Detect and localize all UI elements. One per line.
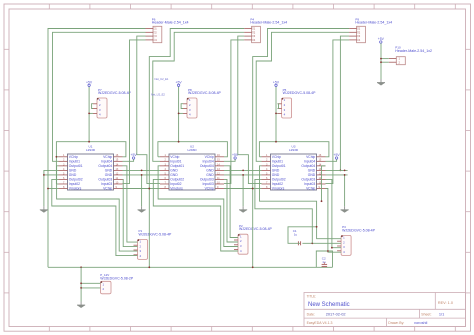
ground [377, 79, 385, 85]
svg-text:WJ2EDGVC-5.08-4P: WJ2EDGVC-5.08-4P [188, 91, 222, 95]
wire: C2 loop [316, 251, 332, 267]
svg-text:Output04: Output04 [98, 164, 112, 168]
svg-text:Input04: Input04 [203, 160, 214, 164]
junction VChip bridge [88, 141, 90, 143]
junction [80, 282, 82, 284]
svg-text:WJ2EDGVC-5.08-2P: WJ2EDGVC-5.08-2P [100, 277, 134, 281]
svg-text:Vmotors: Vmotors [69, 187, 82, 191]
junction [252, 188, 254, 190]
junction P3 pin3 [331, 247, 333, 249]
junction gnd [43, 174, 45, 176]
+5V power [378, 37, 385, 43]
svg-text:New Schematic: New Schematic [308, 302, 350, 308]
wire: Output01 loop to bottom connector pin3 [158, 166, 238, 247]
junction P10 [380, 61, 382, 63]
junction gnd rail [141, 174, 143, 176]
capacitor C2 [322, 256, 328, 266]
svg-text:REV: 1.0: REV: 1.0 [438, 301, 453, 305]
+5V power [273, 81, 280, 87]
svg-text:Header-Male-2.54_1x4: Header-Male-2.54_1x4 [152, 21, 189, 25]
svg-text:GND: GND [69, 169, 77, 173]
svg-text:Drawn By:: Drawn By: [388, 321, 404, 325]
wire: +5V net over IC (VChip bridge) [158, 142, 228, 157]
svg-text:Header-Male-2.54_1x4: Header-Male-2.54_1x4 [355, 21, 392, 25]
wire: GND rails across [224, 169, 262, 171]
wire: right VChip tap [224, 188, 253, 190]
wire: Output03 to bottom connector pin2 [224, 179, 238, 242]
svg-text:VChip: VChip [103, 187, 112, 191]
wire: Output02 loop to bottom connector pin4 [52, 179, 138, 255]
wire: WJ pins 2-3 jumper [277, 104, 280, 109]
svg-text:WJ2EDGVC-5.08-4P: WJ2EDGVC-5.08-4P [342, 228, 376, 232]
svg-text:Input03: Input03 [203, 182, 214, 186]
wire: Output01 loop to bottom connector pin3 [57, 166, 138, 251]
connector P8 WJ2EDGVC-5.08-4P [183, 88, 222, 118]
junction WJ pin4 [178, 113, 180, 115]
IC U3 L293D motor driver [262, 145, 326, 191]
svg-text:Input03: Input03 [304, 182, 315, 186]
+5V power [86, 81, 93, 87]
svg-text:GND: GND [308, 173, 316, 177]
svg-text:Header-Male-2.54_1x2: Header-Male-2.54_1x2 [395, 49, 432, 53]
svg-text:TITLE:: TITLE: [307, 295, 317, 299]
junction C1 net [311, 242, 313, 244]
wire: C1 left side loop [288, 227, 317, 244]
svg-text:VChip: VChip [306, 187, 315, 191]
svg-text:Output01: Output01 [170, 164, 184, 168]
svg-text:VChip: VChip [69, 155, 78, 159]
svg-text:WJ2EDGVC-5.08-4P: WJ2EDGVC-5.08-4P [283, 91, 317, 95]
svg-text:GND: GND [272, 169, 280, 173]
junction bus [148, 266, 150, 268]
svg-text:voroshil: voroshil [414, 320, 428, 325]
wire: U3 Output01 loop to P3 pin1 through C1 top [260, 166, 342, 239]
svg-text:Output03: Output03 [200, 178, 214, 182]
junction WJ pin4 [275, 113, 277, 115]
ground [40, 206, 48, 212]
svg-text:Output02: Output02 [170, 178, 184, 182]
connector P9 header male 1x4 [349, 17, 392, 42]
junction bus [252, 266, 254, 268]
svg-text:L293D: L293D [187, 148, 197, 152]
connector P_12V WJ2EDGVC-5.08-2P [100, 273, 134, 294]
junction [80, 287, 82, 289]
svg-text:L293D: L293D [86, 148, 96, 152]
wire: P9 pin4 drop to U3 Input03 [326, 40, 350, 184]
junction GND rail [340, 170, 342, 172]
wire: P6 pin1 net to bus [48, 29, 146, 268]
wire: header pin3 zigzag to next block Input02 [238, 36, 262, 184]
svg-text:GND: GND [272, 173, 280, 177]
wire: header pin2 staircase to Input01 [153, 32, 244, 161]
+5V power [334, 153, 341, 159]
wire: +5V net over IC (VChip bridge) [56, 142, 126, 184]
junction gnd rail [242, 174, 244, 176]
svg-text:Vmotors: Vmotors [170, 187, 183, 191]
svg-text:Output02: Output02 [272, 178, 286, 182]
svg-text:Output01: Output01 [69, 164, 83, 168]
junction VChip bridge [178, 141, 180, 143]
wire: U3 VChip to C2 / P3 pin4 [326, 189, 342, 253]
wire: header pin2 staircase to Input01 [256, 32, 349, 161]
junction 12V [148, 188, 150, 190]
svg-text:Vmotors: Vmotors [272, 187, 285, 191]
connector P6 header male 1x4 [146, 17, 189, 42]
IC U1 L293D motor driver [59, 145, 123, 191]
svg-text:Output03: Output03 [301, 178, 315, 182]
wire: VChip tap / Input02 feed U1 [56, 156, 58, 158]
junction 12V [252, 188, 254, 190]
svg-text:Input04: Input04 [304, 160, 315, 164]
svg-text:Net_U2_E1: Net_U2_E1 [155, 77, 169, 81]
svg-text:Output04: Output04 [301, 164, 315, 168]
junction P10 [380, 58, 382, 60]
wire: WJ pin4 tap [276, 112, 278, 114]
junction VChip bridge [275, 141, 277, 143]
wire: P9 pin3 drop to GND rail [340, 36, 349, 170]
svg-text:2017-02-02: 2017-02-02 [326, 311, 346, 316]
svg-text:GND: GND [206, 169, 214, 173]
wire: Vmotors tap to 12V net [48, 188, 59, 190]
junction WJ pin4 [88, 113, 90, 115]
ground [138, 206, 146, 212]
junction C2 top [327, 250, 329, 252]
svg-text:Header-Male-2.54_1x4: Header-Male-2.54_1x4 [250, 21, 287, 25]
junction VChip [56, 156, 58, 158]
svg-text:Input01: Input01 [170, 160, 181, 164]
wire: WJ pins 2-3 jumper [92, 104, 93, 109]
connector P4 header male 1x4 [244, 17, 287, 42]
title block [304, 293, 466, 327]
svg-text:GND: GND [308, 169, 316, 173]
junction C1 top [316, 226, 318, 228]
svg-text:VChip: VChip [170, 155, 179, 159]
svg-text:Output01: Output01 [272, 164, 286, 168]
connector P7 WJ2EDGVC-5.08-4P [93, 88, 132, 118]
svg-text:WJ2EDGVC-5.08-4P: WJ2EDGVC-5.08-4P [98, 91, 132, 95]
wire: header pin4 drop to Input03 [123, 40, 146, 184]
wire: WJ +5V stem down to VChip bridge [88, 87, 90, 142]
svg-text:VChip: VChip [205, 187, 214, 191]
svg-text:Date:: Date: [307, 312, 315, 316]
svg-text:L293D: L293D [289, 148, 299, 152]
svg-text:GND: GND [105, 173, 113, 177]
connector P2 WJ2EDGVC-5.08-4P [234, 224, 273, 254]
wire: WJ pin4 tap [89, 112, 93, 114]
svg-text:Input04: Input04 [101, 160, 112, 164]
svg-text:VChip: VChip [103, 155, 112, 159]
wire: WJ +5V stem down to VChip bridge [275, 87, 277, 142]
svg-text:GND: GND [69, 173, 77, 177]
wire: WJ pins 2-3 jumper [181, 104, 183, 109]
wire: Output02 loop to bottom connector pin4 [153, 179, 238, 251]
wire: WJ +5V stem down to VChip bridge [178, 87, 180, 142]
svg-text:Output02: Output02 [69, 178, 83, 182]
+5V power [232, 153, 239, 159]
connector P5 WJ2EDGVC-5.08-4P [278, 88, 317, 118]
ground [77, 302, 85, 308]
svg-text:Input02: Input02 [170, 182, 181, 186]
wire: C1 right to P3 pin2 [302, 242, 341, 244]
wire: GND rails across [123, 169, 161, 171]
wire: GND rails across [326, 169, 348, 171]
wire: Vmotors tap to 12V net [253, 188, 262, 190]
svg-text:GND: GND [170, 173, 178, 177]
wire: U1 left GND pins to ground [44, 170, 59, 206]
capacitor C1 [293, 229, 301, 245]
svg-text:VChip: VChip [205, 155, 214, 159]
junction gnd rail [242, 169, 244, 171]
svg-text:Sheet:: Sheet: [421, 312, 431, 316]
wire: U3 Output02 loop joining C1/pin2 net [255, 179, 312, 243]
svg-text:1u: 1u [294, 233, 298, 237]
junction gnd rail [344, 174, 346, 176]
junction [148, 188, 150, 190]
wire: bus to P_12V and ground [80, 267, 82, 301]
svg-text:Input03: Input03 [101, 182, 112, 186]
ground [341, 206, 349, 212]
svg-text:1/1: 1/1 [439, 311, 444, 316]
junction 12V [47, 188, 49, 190]
junction gnd rail [344, 169, 346, 171]
ground [239, 206, 247, 212]
svg-text:Output04: Output04 [200, 164, 214, 168]
wire: Vmotors tap to 12V net [149, 188, 160, 190]
wire: Output04 to bottom connector pin1 [224, 166, 238, 238]
svg-text:Net_U2_E2: Net_U2_E2 [151, 93, 165, 97]
svg-text:GND: GND [170, 169, 178, 173]
wire: Output03 to bottom connector pin2 [123, 179, 138, 246]
svg-text:Output03: Output03 [98, 178, 112, 182]
junction bus P_12V [80, 266, 82, 268]
junction gnd rail [141, 169, 143, 171]
svg-text:Input02: Input02 [272, 182, 283, 186]
wire: +5V net over IC (VChip bridge) [259, 142, 329, 157]
wire: header pin3 zigzag to next block Input02 [137, 36, 160, 184]
svg-text:VChip: VChip [306, 155, 315, 159]
+5V power [131, 153, 138, 159]
svg-text:Input01: Input01 [69, 160, 80, 164]
+5V power [176, 81, 183, 87]
svg-text:WJ2EDGVC-5.08-4P: WJ2EDGVC-5.08-4P [239, 227, 273, 231]
connector P10 header male 1x2 [389, 46, 432, 65]
wire: WJ pin4 tap [179, 112, 183, 114]
wire: bottom 12V bus [48, 266, 333, 268]
connector P1 WJ2EDGVC-5.08-4P [134, 229, 173, 259]
svg-text:GND: GND [105, 169, 113, 173]
connector P3 WJ2EDGVC-5.08-4P [337, 225, 376, 255]
wire: header pin1 staircase to bus [149, 29, 244, 268]
wire: P6 pin2 to U1 Input01 [53, 32, 146, 161]
svg-text:Input01: Input01 [272, 160, 283, 164]
svg-text:EasyEDA V4.1.3: EasyEDA V4.1.3 [307, 321, 333, 325]
wire: U3 Output04 tap to loop [322, 166, 326, 201]
wire: Output04 to bottom connector pin1 [123, 166, 138, 242]
wire: right VChip tap [123, 188, 150, 190]
wire: header pin1 staircase to bus [253, 29, 349, 268]
wire: U3 Output03 down to P3 pin3 [326, 179, 342, 247]
svg-text:WJ2EDGVC-5.08-4P: WJ2EDGVC-5.08-4P [139, 232, 173, 236]
svg-text:Input02: Input02 [69, 182, 80, 186]
svg-text:VChip: VChip [272, 155, 281, 159]
IC U2 L293D motor driver [160, 145, 224, 191]
wire: header pin4 drop to Input03 [224, 40, 244, 184]
svg-text:GND: GND [206, 173, 214, 177]
junction loop [321, 200, 323, 202]
